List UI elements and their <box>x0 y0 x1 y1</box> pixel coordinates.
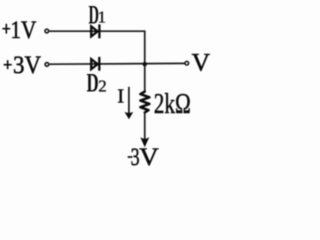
diode D1 <box>91 24 99 38</box>
svg-text:V: V <box>139 142 159 171</box>
wire junction to resistor <box>144 64 146 92</box>
svg-text:2kΩ: 2kΩ <box>154 89 191 120</box>
junction dot <box>143 62 147 66</box>
label D2 <box>87 69 107 98</box>
svg-text:2: 2 <box>98 77 107 96</box>
svg-text:3V: 3V <box>13 52 41 79</box>
svg-text:D: D <box>87 69 99 98</box>
terminal circle +3V <box>45 63 49 67</box>
wire from +1V through D1 to corner, down to junction <box>49 31 144 64</box>
svg-text:1V: 1V <box>10 17 36 44</box>
svg-text:I: I <box>117 86 124 108</box>
svg-text:1: 1 <box>98 8 107 27</box>
node +1V label <box>2 17 36 44</box>
node +3V label <box>4 52 41 79</box>
wire from +3V through D2 to V terminal <box>49 62 184 65</box>
node -3V label <box>128 142 160 171</box>
label D1 <box>89 0 107 29</box>
current arrow I <box>125 87 134 119</box>
terminal circle +1V <box>45 29 49 33</box>
wire resistor to -3V arrow <box>140 112 149 147</box>
svg-text:3: 3 <box>131 142 140 171</box>
svg-text:V: V <box>192 48 211 77</box>
resistor 2k zigzag <box>140 92 149 113</box>
diode D2 <box>91 57 99 71</box>
terminal circle V <box>185 61 189 65</box>
